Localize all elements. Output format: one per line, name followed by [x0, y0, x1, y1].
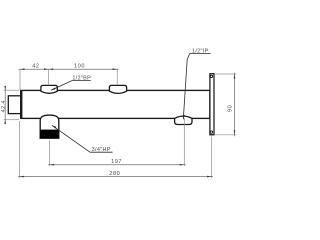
- body left edge (thick end line): [20, 90, 22, 119]
- svg-text:197: 197: [111, 159, 122, 165]
- boss B3 (1/2"IP, bottom right): [175, 116, 192, 124]
- inlet stub (left): [8, 96, 20, 114]
- dimension 42.4 (left vertical): [4, 86, 19, 125]
- svg-text:90: 90: [227, 105, 233, 112]
- dimension 280 (bottom overall): [18, 121, 213, 178]
- label 3/4"HP with leader: [52, 125, 113, 153]
- boss B1 (1/2"BP, top left): [41, 85, 57, 93]
- svg-text:42.4: 42.4: [1, 100, 7, 113]
- svg-text:280: 280: [109, 171, 120, 177]
- dimension 42 / 100 shared line (top): [19, 68, 119, 90]
- boss B2 (top right): [109, 85, 126, 93]
- dimension 197 (bottom): [48, 118, 186, 166]
- svg-text:100: 100: [74, 64, 85, 70]
- svg-text:42: 42: [32, 64, 39, 70]
- dimension 90 (right vertical): [215, 73, 236, 137]
- label 1/2"IP with leader: [183, 48, 210, 119]
- label 1/2"BP with leader: [51, 75, 91, 90]
- wall flange: [210, 74, 214, 135]
- pipe body (main horizontal tube): [21, 90, 210, 118]
- outlet 3/4"HP (bottom left, with dark seal): [40, 115, 59, 138]
